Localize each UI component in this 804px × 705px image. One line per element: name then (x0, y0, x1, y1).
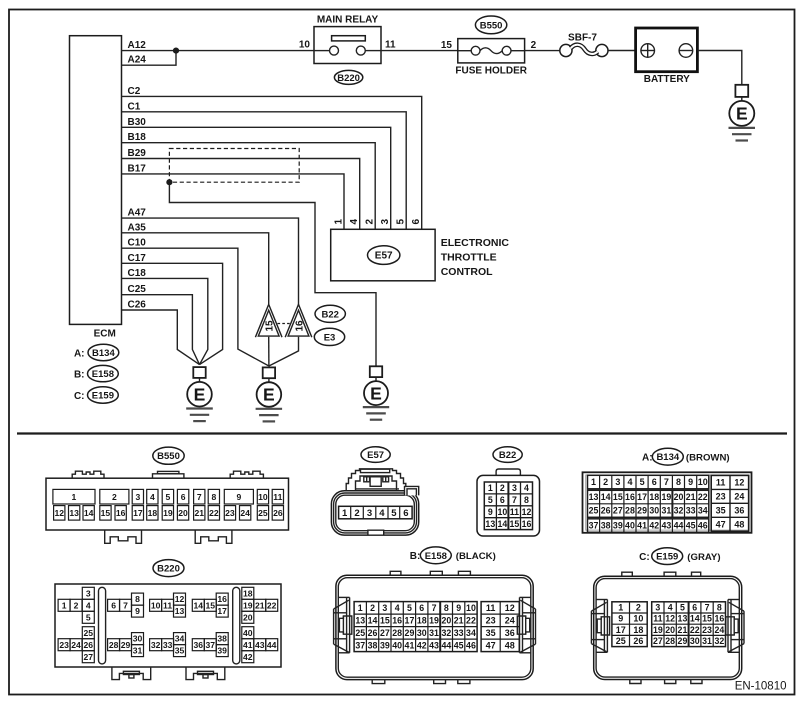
wire B30 to E57 pin 3 (122, 127, 391, 229)
svg-text:21: 21 (454, 615, 464, 625)
svg-text:B550: B550 (157, 451, 180, 462)
svg-text:E: E (736, 104, 748, 124)
svg-text:18: 18 (633, 625, 643, 635)
svg-text:27: 27 (380, 628, 390, 638)
wire triangle 15 down to ground (268, 337, 270, 366)
svg-text:4: 4 (668, 603, 673, 613)
svg-text:25: 25 (616, 636, 626, 646)
svg-text:17: 17 (133, 508, 143, 518)
svg-text:22: 22 (690, 625, 700, 635)
svg-text:24: 24 (71, 640, 81, 650)
svg-text:1: 1 (342, 508, 348, 519)
svg-text:17: 17 (405, 615, 415, 625)
svg-text:6: 6 (411, 219, 422, 225)
fusible link SBF-7 (560, 32, 608, 56)
svg-text:1: 1 (62, 600, 67, 610)
svg-text:16: 16 (116, 508, 126, 518)
svg-text:2: 2 (112, 492, 117, 502)
svg-text:33: 33 (163, 640, 173, 650)
svg-text:31: 31 (702, 636, 712, 646)
svg-text:48: 48 (505, 640, 515, 650)
svg-text:36: 36 (505, 628, 515, 638)
svg-text:5: 5 (407, 603, 412, 613)
svg-text:10: 10 (299, 40, 311, 51)
svg-text:12: 12 (734, 477, 744, 487)
svg-text:E158: E158 (92, 369, 114, 380)
wire C26 (122, 310, 200, 365)
svg-text:2: 2 (74, 600, 79, 610)
svg-text:24: 24 (714, 625, 724, 635)
svg-text:34: 34 (175, 634, 185, 644)
ground sensor ground E (256, 367, 283, 421)
svg-text:16: 16 (217, 594, 227, 604)
svg-text:35: 35 (716, 505, 726, 515)
wire B17 to E57 pin 1 (122, 174, 345, 229)
svg-text:25: 25 (258, 508, 268, 518)
svg-text:10: 10 (633, 614, 643, 624)
svg-text:14: 14 (194, 600, 204, 610)
svg-text:B134: B134 (92, 348, 115, 359)
svg-text:34: 34 (466, 628, 476, 638)
svg-text:14: 14 (690, 614, 700, 624)
svg-text:12: 12 (665, 614, 675, 624)
svg-text:47: 47 (486, 640, 496, 650)
svg-text:15: 15 (441, 40, 453, 51)
svg-text:9: 9 (688, 477, 693, 487)
svg-text:11: 11 (163, 600, 172, 610)
svg-text:21: 21 (194, 508, 204, 518)
svg-text:39: 39 (217, 646, 227, 656)
svg-text:8: 8 (444, 603, 449, 613)
shield drain wire to ground E3 (169, 182, 376, 366)
svg-text:19: 19 (429, 615, 439, 625)
svg-text:29: 29 (121, 640, 131, 650)
svg-text:41: 41 (637, 521, 647, 531)
svg-text:1: 1 (488, 483, 493, 493)
svg-text:17: 17 (637, 492, 647, 502)
svg-text:27: 27 (84, 652, 94, 662)
label ELECTRONIC THROTTLE CONTROL (441, 237, 510, 278)
svg-text:42: 42 (649, 521, 659, 531)
connector oval E3 (314, 328, 344, 345)
wire triangle 16 down to ground (269, 337, 299, 366)
wire A12 ECM to main relay pin 10 (122, 50, 315, 52)
svg-text:18: 18 (417, 615, 427, 625)
svg-text:1: 1 (591, 477, 596, 487)
svg-text:13: 13 (69, 508, 79, 518)
svg-text:22: 22 (466, 615, 476, 625)
svg-text:45: 45 (454, 640, 464, 650)
connector pass-through triangle 15 (B22/E3) (255, 304, 282, 337)
svg-text:2: 2 (365, 219, 376, 225)
svg-text:B17: B17 (128, 163, 147, 174)
svg-text:E159: E159 (656, 552, 678, 563)
wire C17 (122, 263, 223, 364)
svg-text:23: 23 (59, 640, 69, 650)
svg-text:3: 3 (615, 477, 620, 487)
svg-text:16: 16 (625, 492, 635, 502)
svg-text:37: 37 (589, 521, 599, 531)
svg-text:8: 8 (211, 492, 216, 502)
svg-text:B:: B: (410, 551, 421, 562)
svg-text:6: 6 (500, 495, 505, 505)
svg-text:E: E (370, 383, 382, 403)
svg-text:39: 39 (613, 521, 623, 531)
svg-text:19: 19 (653, 625, 663, 635)
svg-text:E3: E3 (324, 332, 336, 343)
svg-text:19: 19 (661, 492, 671, 502)
svg-text:5: 5 (488, 495, 493, 505)
svg-text:26: 26 (84, 640, 94, 650)
svg-text:30: 30 (417, 628, 427, 638)
svg-text:1: 1 (72, 492, 77, 502)
svg-text:21: 21 (255, 600, 265, 610)
connector pass-through triangle 16 (B22/E3) (285, 304, 312, 337)
svg-text:27: 27 (613, 506, 623, 516)
svg-text:16: 16 (295, 320, 306, 332)
svg-text:12: 12 (505, 603, 515, 613)
svg-text:5: 5 (86, 612, 91, 622)
svg-text:19: 19 (243, 600, 253, 610)
svg-text:2: 2 (354, 508, 359, 519)
svg-text:4: 4 (627, 477, 632, 487)
svg-text:11: 11 (385, 40, 396, 51)
svg-text:16: 16 (392, 615, 402, 625)
wire fuse to SBF-7 (525, 50, 560, 52)
svg-text:24: 24 (734, 491, 744, 501)
ground battery E (729, 85, 756, 141)
svg-text:37: 37 (355, 640, 365, 650)
svg-text:23: 23 (225, 508, 235, 518)
svg-text:42: 42 (417, 640, 427, 650)
svg-text:20: 20 (665, 625, 675, 635)
svg-text:6: 6 (419, 603, 424, 613)
svg-text:A47: A47 (128, 208, 147, 219)
shield dashed box around B29/B17 (169, 149, 299, 183)
svg-text:14: 14 (601, 492, 611, 502)
svg-text:35: 35 (175, 646, 185, 656)
svg-text:18: 18 (243, 588, 253, 598)
svg-text:ELECTRONIC: ELECTRONIC (441, 237, 510, 249)
svg-text:20: 20 (674, 492, 684, 502)
svg-text:16: 16 (522, 519, 532, 529)
svg-text:29: 29 (637, 506, 647, 516)
electronic throttle control box E57 (331, 229, 435, 280)
svg-text:31: 31 (661, 506, 671, 516)
svg-text:31: 31 (133, 646, 143, 656)
svg-text:B134: B134 (656, 452, 679, 463)
svg-text:29: 29 (405, 628, 415, 638)
svg-text:B29: B29 (128, 148, 147, 159)
svg-text:34: 34 (698, 506, 708, 516)
svg-text:43: 43 (429, 640, 439, 650)
svg-text:(GRAY): (GRAY) (687, 552, 720, 563)
svg-text:44: 44 (674, 521, 684, 531)
svg-text:ECM: ECM (94, 328, 116, 339)
svg-text:25: 25 (589, 506, 599, 516)
svg-text:1: 1 (358, 603, 363, 613)
svg-text:2: 2 (603, 477, 608, 487)
svg-text:15: 15 (613, 492, 623, 502)
svg-text:21: 21 (686, 492, 696, 502)
svg-text:4: 4 (150, 492, 155, 502)
svg-text:A:: A: (642, 452, 653, 463)
svg-text:3: 3 (135, 492, 140, 502)
svg-text:40: 40 (625, 521, 635, 531)
svg-text:12: 12 (522, 507, 532, 517)
svg-text:11: 11 (510, 507, 519, 517)
svg-text:10: 10 (151, 600, 161, 610)
svg-text:15: 15 (206, 600, 216, 610)
svg-text:33: 33 (454, 628, 464, 638)
battery (636, 28, 698, 85)
svg-text:20: 20 (243, 612, 253, 622)
wire B18 to E57 pin 2 (122, 143, 376, 230)
svg-text:15: 15 (265, 320, 276, 332)
svg-text:9: 9 (135, 606, 140, 616)
svg-text:48: 48 (734, 519, 744, 529)
svg-text:26: 26 (633, 636, 643, 646)
svg-text:36: 36 (194, 640, 204, 650)
svg-text:12: 12 (54, 508, 64, 518)
svg-text:1: 1 (333, 219, 344, 225)
E57 throttle connector pinout (331, 447, 418, 535)
svg-text:B30: B30 (128, 117, 147, 128)
svg-text:23: 23 (486, 615, 496, 625)
svg-text:4: 4 (86, 600, 91, 610)
svg-text:38: 38 (601, 521, 611, 531)
C: E159 (GRAY) ECM connector pinout (591, 548, 744, 684)
svg-text:43: 43 (661, 521, 671, 531)
svg-text:32: 32 (441, 628, 451, 638)
svg-text:8: 8 (717, 603, 722, 613)
svg-text:SBF-7: SBF-7 (568, 32, 597, 43)
svg-text:C:: C: (639, 552, 650, 563)
svg-text:7: 7 (432, 603, 437, 613)
svg-text:17: 17 (217, 606, 227, 616)
svg-text:3: 3 (655, 603, 660, 613)
svg-text:10: 10 (698, 477, 708, 487)
svg-text:30: 30 (690, 636, 700, 646)
svg-text:28: 28 (392, 628, 402, 638)
svg-text:31: 31 (429, 628, 439, 638)
svg-text:A12: A12 (128, 40, 147, 51)
svg-text:E159: E159 (92, 391, 114, 402)
svg-text:10: 10 (466, 603, 476, 613)
svg-text:14: 14 (368, 615, 378, 625)
svg-text:33: 33 (686, 506, 696, 516)
svg-text:C:: C: (74, 391, 85, 402)
svg-text:22: 22 (267, 600, 277, 610)
wire B29 to E57 pin 4 (122, 159, 360, 230)
svg-text:5: 5 (166, 492, 171, 502)
svg-text:15: 15 (510, 519, 520, 529)
svg-text:6: 6 (111, 600, 116, 610)
wire C18 (122, 278, 208, 364)
svg-text:2: 2 (636, 603, 641, 613)
svg-text:5: 5 (680, 603, 685, 613)
svg-text:22: 22 (698, 492, 708, 502)
svg-text:1: 1 (618, 603, 623, 613)
svg-text:42: 42 (243, 652, 253, 662)
svg-text:5: 5 (640, 477, 645, 487)
svg-text:BATTERY: BATTERY (644, 74, 690, 85)
B22 connector pinout (477, 447, 540, 536)
fuse holder connector oval B550 (475, 16, 506, 34)
svg-text:40: 40 (243, 628, 253, 638)
fuse holder box (455, 39, 527, 77)
svg-text:40: 40 (392, 640, 402, 650)
svg-text:C2: C2 (128, 86, 141, 97)
shield junction dot (166, 179, 172, 185)
wire C10 to sensor ground (122, 248, 269, 366)
wire A47 to connector triangle 16 (122, 218, 299, 306)
svg-text:16: 16 (714, 614, 724, 624)
svg-text:5: 5 (391, 508, 397, 519)
svg-text:10: 10 (258, 492, 268, 502)
svg-text:46: 46 (466, 640, 476, 650)
svg-text:11: 11 (273, 492, 282, 502)
svg-text:30: 30 (133, 634, 143, 644)
svg-text:11: 11 (653, 614, 662, 624)
svg-text:8: 8 (135, 594, 140, 604)
svg-text:FUSE HOLDER: FUSE HOLDER (455, 66, 527, 77)
svg-text:44: 44 (441, 640, 451, 650)
svg-text:B:: B: (74, 369, 85, 380)
svg-text:CONTROL: CONTROL (441, 266, 493, 278)
svg-text:14: 14 (84, 508, 94, 518)
svg-text:E: E (263, 385, 275, 405)
svg-text:E57: E57 (367, 450, 384, 461)
svg-text:11: 11 (716, 477, 726, 487)
svg-text:3: 3 (382, 603, 387, 613)
svg-text:45: 45 (686, 521, 696, 531)
svg-text:B220: B220 (157, 564, 180, 575)
svg-text:18: 18 (649, 492, 659, 502)
svg-text:15: 15 (101, 508, 111, 518)
svg-text:39: 39 (380, 640, 390, 650)
svg-text:B550: B550 (480, 20, 503, 31)
svg-text:46: 46 (698, 521, 708, 531)
svg-text:13: 13 (678, 614, 688, 624)
svg-text:27: 27 (653, 636, 663, 646)
svg-text:24: 24 (240, 508, 250, 518)
wire C1 to E57 pin 5 (122, 112, 407, 230)
B: E158 (BLACK) ECM connector pinout (334, 547, 536, 684)
B550 fuse holder connector pinout (46, 447, 289, 543)
svg-text:EN-10810: EN-10810 (735, 680, 787, 692)
svg-text:32: 32 (714, 636, 724, 646)
svg-text:35: 35 (486, 628, 496, 638)
wire relay pin 11 to fuse holder pin 15 (381, 50, 458, 52)
svg-text:41: 41 (243, 640, 253, 650)
svg-text:23: 23 (716, 491, 726, 501)
svg-text:C26: C26 (128, 300, 147, 311)
svg-text:THROTTLE: THROTTLE (441, 252, 497, 264)
svg-text:6: 6 (652, 477, 657, 487)
svg-text:14: 14 (497, 519, 507, 529)
svg-text:E57: E57 (375, 251, 393, 262)
svg-text:13: 13 (175, 606, 185, 616)
svg-text:25: 25 (355, 628, 365, 638)
svg-text:9: 9 (488, 507, 493, 517)
svg-text:3: 3 (367, 508, 372, 519)
ground shield ground E (363, 366, 389, 419)
svg-text:7: 7 (664, 477, 669, 487)
svg-text:4: 4 (379, 508, 385, 519)
svg-text:C18: C18 (128, 268, 147, 279)
svg-text:2: 2 (500, 483, 505, 493)
svg-text:2: 2 (370, 603, 375, 613)
svg-text:B22: B22 (321, 309, 338, 320)
junction dot A12/A24 (173, 48, 179, 54)
B220 main relay connector pinout (55, 560, 281, 680)
svg-text:15: 15 (380, 615, 390, 625)
svg-text:5: 5 (396, 219, 407, 225)
svg-text:9: 9 (236, 492, 241, 502)
svg-text:6: 6 (403, 508, 408, 519)
svg-text:25: 25 (84, 628, 94, 638)
svg-text:15: 15 (702, 614, 712, 624)
svg-text:3: 3 (380, 219, 391, 225)
svg-text:9: 9 (456, 603, 461, 613)
svg-text:17: 17 (616, 625, 626, 635)
svg-text:21: 21 (678, 625, 688, 635)
wire C25 (122, 295, 200, 365)
svg-text:4: 4 (349, 219, 360, 225)
svg-text:28: 28 (109, 640, 119, 650)
wire A24 joins A12 (122, 51, 177, 66)
svg-text:7: 7 (123, 600, 128, 610)
svg-text:10: 10 (497, 507, 507, 517)
svg-text:24: 24 (505, 615, 515, 625)
svg-text:C25: C25 (128, 284, 147, 295)
svg-text:36: 36 (734, 505, 744, 515)
svg-text:20: 20 (178, 508, 188, 518)
svg-text:41: 41 (405, 640, 415, 650)
svg-text:A24: A24 (128, 55, 147, 66)
wire A35 to connector triangle 15 (122, 233, 269, 306)
A: B134 (BROWN) ECM connector pinout (583, 448, 752, 532)
svg-text:38: 38 (217, 634, 227, 644)
svg-text:(BLACK): (BLACK) (456, 551, 496, 562)
svg-text:28: 28 (665, 636, 675, 646)
dashed pair link (278, 323, 291, 325)
svg-text:A:: A: (74, 348, 85, 359)
svg-text:(BROWN): (BROWN) (686, 452, 730, 463)
svg-text:20: 20 (441, 615, 451, 625)
svg-text:44: 44 (267, 640, 277, 650)
svg-text:C10: C10 (128, 238, 147, 249)
svg-text:37: 37 (206, 640, 216, 650)
svg-text:26: 26 (601, 506, 611, 516)
svg-text:7: 7 (197, 492, 202, 502)
svg-text:A35: A35 (128, 222, 147, 233)
svg-text:38: 38 (368, 640, 378, 650)
wire battery to chassis ground (697, 51, 741, 85)
svg-text:E: E (194, 384, 206, 404)
svg-text:7: 7 (705, 603, 710, 613)
ECM box (70, 36, 122, 340)
svg-text:4: 4 (524, 483, 529, 493)
ground ECM grounds E (186, 367, 213, 421)
svg-text:9: 9 (618, 614, 623, 624)
svg-text:26: 26 (273, 508, 283, 518)
svg-text:22: 22 (209, 508, 219, 518)
svg-text:29: 29 (678, 636, 688, 646)
svg-text:18: 18 (148, 508, 158, 518)
svg-text:6: 6 (181, 492, 186, 502)
